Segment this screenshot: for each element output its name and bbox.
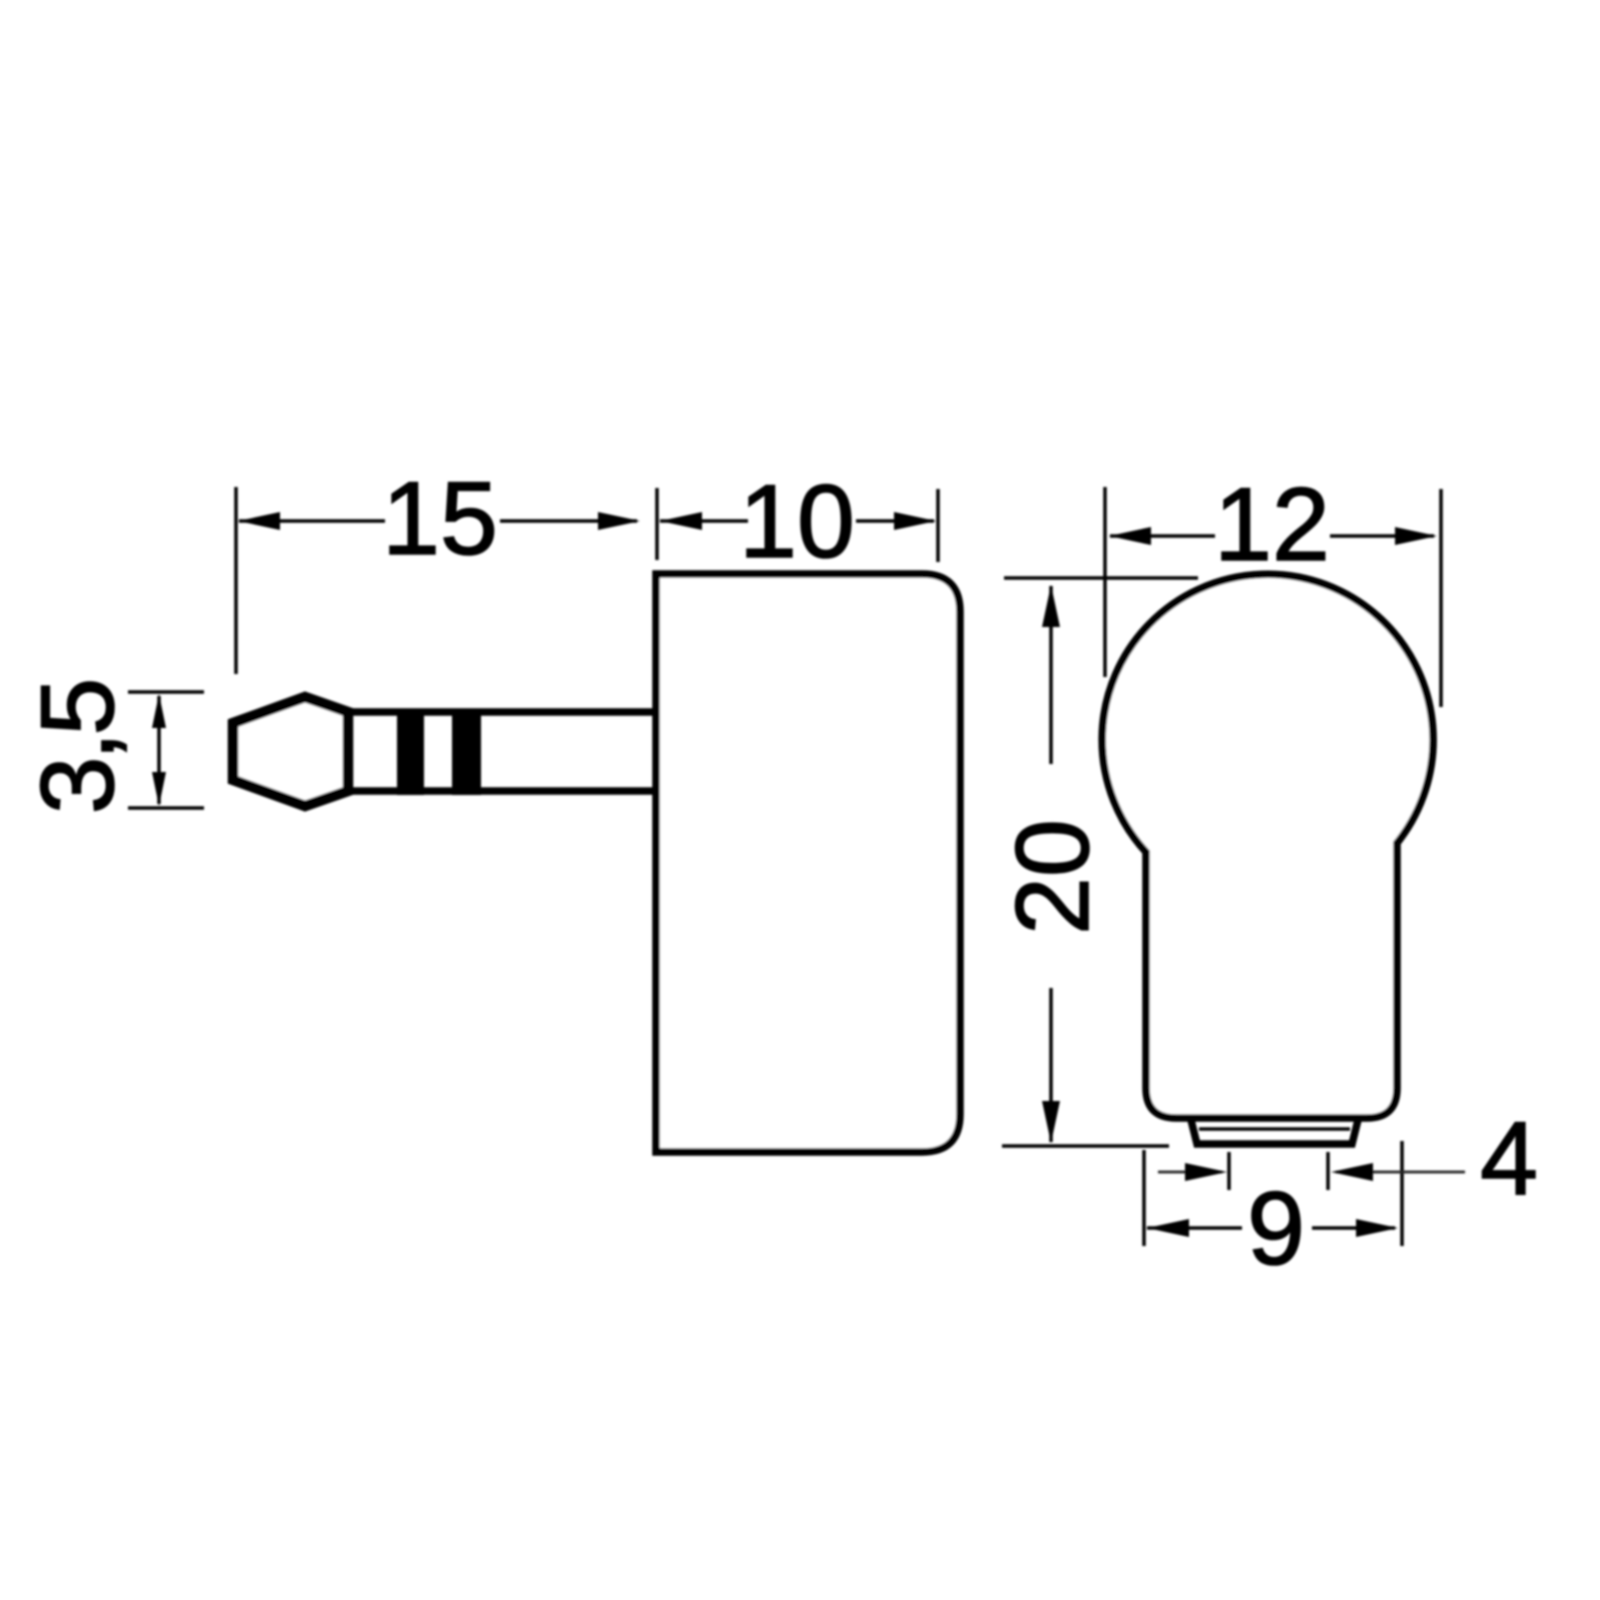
svg-text:12: 12 [1214, 467, 1330, 583]
collar outline under body [1191, 1120, 1358, 1144]
plug shaft bottom line [345, 787, 653, 795]
dim 4 right leader with arrow [1336, 1171, 1465, 1174]
dim 20 line upper segment with up arrow [1049, 586, 1053, 764]
dim 12 line left segment with arrow [1110, 534, 1215, 538]
dim 9 line right segment with arrow [1312, 1226, 1395, 1230]
svg-text:10: 10 [739, 464, 855, 580]
dim 12 line right segment with arrow [1330, 534, 1434, 538]
dim 12 right extension line [1439, 489, 1443, 707]
dim 20 line lower segment with down arrow [1049, 988, 1053, 1142]
dim 10 right extension line [936, 489, 940, 562]
dim 3,5 bottom tick [128, 806, 204, 810]
dim 15 left extension line [234, 487, 238, 674]
dim 9 line left segment with arrow [1147, 1226, 1242, 1230]
svg-text:20: 20 [995, 819, 1111, 935]
dim 9 right extension line [1400, 1141, 1404, 1246]
insulator band 1 [397, 709, 424, 795]
dim 4 left leader with arrow [1158, 1171, 1222, 1174]
dim 10 line right segment with arrow [856, 519, 934, 523]
dim 4 left tick [1227, 1152, 1231, 1190]
plug tip hexagon [233, 697, 348, 806]
plug shaft top line [345, 708, 653, 716]
dim 4 right tick [1326, 1152, 1330, 1190]
dim 3,5 double arrow [157, 696, 161, 804]
dim 3,5 top tick [128, 690, 204, 694]
collar top thin line [1199, 1127, 1350, 1131]
svg-text:4: 4 [1480, 1101, 1538, 1217]
dim 9 left extension line [1142, 1150, 1146, 1246]
dim 20 bottom extension line [1002, 1144, 1169, 1148]
svg-text:9: 9 [1247, 1171, 1305, 1287]
dim 15/10 shared extension line [655, 488, 659, 560]
svg-text:3,5: 3,5 [20, 682, 136, 815]
insulator band 2 [452, 709, 481, 795]
dim 15 line right segment with arrow [500, 519, 637, 523]
dim 10 line left segment with arrow [660, 519, 748, 523]
dim 20 top extension line [1004, 576, 1198, 580]
plug body (side view, rounded right corners) [656, 574, 960, 1152]
dim 15 line left segment with arrow [239, 519, 385, 523]
dim 12 left extension line [1103, 487, 1107, 677]
front view: ball head and body outline [1102, 574, 1433, 1118]
svg-text:15: 15 [382, 461, 498, 577]
